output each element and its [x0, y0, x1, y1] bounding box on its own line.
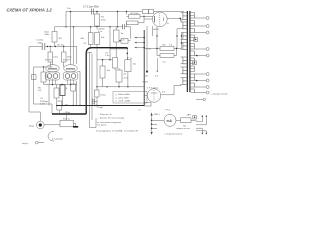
svg-text:2АП: 2АП — [187, 113, 192, 116]
tube V1 driver — [152, 12, 167, 27]
resistor R8 — [57, 101, 62, 110]
resistor 100ohm — [94, 90, 99, 97]
wires splitter — [144, 29, 181, 56]
primary stubs — [177, 13, 183, 85]
resistor mid b — [100, 66, 105, 78]
notes table — [113, 92, 147, 104]
resistor R5 — [114, 30, 120, 42]
terminal circles — [206, 17, 209, 20]
svg-text:0.5: 0.5 — [163, 61, 167, 63]
wire nested corner — [34, 67, 53, 114]
svg-text:105в: 105в — [144, 75, 150, 77]
svg-text:—выход колонок: —выход колонок — [211, 93, 228, 95]
tube V3 output — [64, 65, 78, 72]
resistor R4 — [95, 14, 100, 26]
tube V2 output — [46, 65, 60, 72]
svg-text:43к: 43к — [101, 37, 104, 39]
svg-text:Е-471: Е-471 — [143, 82, 150, 84]
resistor R6 — [54, 88, 59, 98]
svg-text:2А2.1: 2А2.1 — [154, 113, 160, 116]
long risers to output tubes — [71, 12, 77, 106]
resistor 68k parallel — [88, 33, 93, 45]
fuse resistor — [181, 118, 192, 123]
svg-text:4.7-резерв: 4.7-резерв — [52, 138, 64, 140]
svg-text:(+ 500ом 45Вт: (+ 500ом 45Вт — [116, 94, 130, 96]
svg-text:Ст: Ст — [138, 109, 141, 111]
resistor mid a — [113, 58, 118, 69]
svg-text:6,3: 6,3 — [155, 75, 159, 77]
wire B+ top rail — [66, 11, 184, 13]
wire drop x49 — [48, 85, 50, 106]
svg-text:1к: 1к — [167, 23, 169, 25]
capacitor C2 dark box — [60, 85, 65, 96]
svg-text:47к: 47к — [38, 90, 41, 92]
capacitor box C6 — [121, 39, 128, 44]
svg-text:120к: 120к — [67, 57, 72, 59]
svg-text:(+ 22ом 10Вт: (+ 22ом 10Вт — [116, 97, 129, 99]
wire riser x110 — [109, 27, 111, 60]
mains column — [151, 116, 153, 132]
resistor mid d — [125, 60, 131, 72]
meter mA — [164, 114, 176, 126]
phase splitter bus — [143, 30, 145, 106]
svg-text:10к: 10к — [133, 63, 136, 65]
ground bus thick — [52, 113, 86, 115]
svg-text:470к: 470к — [101, 20, 106, 22]
svg-text:РТ-2: РТ-2 — [166, 109, 171, 111]
svg-text:42: 42 — [84, 43, 87, 45]
node +245v — [70, 11, 72, 13]
svg-text:R11 1а: R11 1а — [63, 119, 71, 121]
B+ thick riser — [86, 48, 127, 114]
primary windings left — [183, 13, 187, 85]
svg-text:4700пф: 4700пф — [40, 100, 48, 103]
svg-text:– Работал -4г: – Работал -4г — [98, 114, 112, 116]
svg-text:1 к: 1 к — [59, 36, 63, 40]
svg-text:– Баланс DC вых каскада: – Баланс DC вых каскада — [98, 117, 125, 119]
svg-text:СХЕМА ОТ ХРЮНА 1.2: СХЕМА ОТ ХРЮНА 1.2 — [7, 7, 53, 12]
capacitor C5 screen — [123, 24, 125, 29]
svg-text:68к: 68к — [81, 38, 84, 40]
svg-text:120к: 120к — [53, 57, 58, 59]
input capacitor C1 — [42, 43, 45, 50]
svg-text:mA: mA — [167, 119, 173, 123]
cathode bus y84.5 — [44, 79, 78, 85]
resistor R7h — [160, 54, 174, 58]
cathode resistor Rk — [41, 72, 46, 82]
ground symbol — [73, 126, 78, 128]
svg-text:нет фона: нет фона — [97, 123, 107, 126]
svg-text:R6: R6 — [163, 44, 167, 46]
stair connector — [196, 116, 206, 133]
svg-text:6Н2П: 6Н2П — [153, 29, 159, 31]
svg-text:2к: 2к — [130, 58, 132, 60]
stub arrows — [137, 38, 145, 48]
svg-text:с опорной панели: с опорной панели — [164, 133, 183, 136]
svg-text:R2 2м: R2 2м — [58, 45, 65, 47]
svg-text:450в: 450в — [45, 34, 51, 36]
svg-text:6,3: 6,3 — [162, 92, 166, 94]
svg-text:(+ +62К +240В: (+ +62К +240В — [116, 101, 131, 103]
label plate V1 — [142, 10, 148, 14]
heater feed arrows — [146, 26, 148, 71]
svg-text:1П дБ: 1П дБ — [97, 107, 104, 109]
wire under thick — [110, 49, 127, 60]
capacitor C8 — [93, 99, 95, 105]
input jack — [37, 121, 45, 129]
wire V1 plate to OT — [167, 18, 182, 21]
wire riser x117.5 — [117, 12, 119, 27]
wire input rail y46.5 — [29, 46, 77, 48]
wire y86.8 — [97, 86, 144, 88]
svg-text:0.22мк: 0.22мк — [37, 40, 44, 42]
bus y105.5 — [56, 105, 144, 107]
svg-text:-47: -47 — [123, 74, 127, 76]
svg-text:1м: 1м — [121, 33, 124, 35]
node after C7 — [96, 11, 98, 13]
resistor R3 — [95, 33, 100, 45]
rectifier tube V4 — [147, 89, 161, 103]
resistor R6h — [160, 47, 174, 51]
wire left drop from B+ — [65, 12, 67, 27]
resistor on left branch — [32, 75, 37, 80]
wire rail left vertical — [29, 47, 40, 122]
cable arc — [48, 131, 54, 141]
svg-text:100м: 100м — [100, 94, 106, 96]
svg-text:вход 1: вход 1 — [22, 143, 29, 145]
aux terminal — [196, 99, 203, 101]
svg-text:Вход: Вход — [29, 126, 35, 128]
svg-text:~: ~ — [150, 111, 152, 113]
grid resistor R2b — [62, 52, 67, 62]
output transformer core — [187, 11, 190, 92]
svg-text:пф: пф — [183, 124, 186, 127]
resistor R1 — [52, 32, 57, 43]
svg-text:1.6: 1.6 — [169, 44, 173, 46]
capacitor C7 — [92, 9, 94, 15]
secondary taps to terminals — [194, 18, 206, 93]
svg-text:Д: Д — [66, 88, 68, 90]
svg-text:модел по нет: модел по нет — [177, 128, 190, 130]
volume pot — [60, 120, 74, 127]
svg-text:4.3 В: 4.3 В — [40, 103, 46, 105]
svg-text:6П14П: 6П14П — [45, 59, 52, 61]
svg-text:6П14П: 6П14П — [63, 59, 70, 61]
connector label — [193, 116, 197, 120]
svg-text:450в: 450в — [38, 42, 44, 44]
svg-text:R4: R4 — [101, 17, 105, 19]
svg-text:12в: 12в — [67, 8, 71, 10]
svg-text:-4.7к: -4.7к — [123, 77, 128, 79]
wire x97 drop — [96, 48, 98, 106]
svg-text:10к: 10к — [107, 70, 110, 72]
wire R1 leads — [54, 27, 56, 47]
wire R4 leads — [96, 12, 98, 27]
svg-text:1.2к: 1.2к — [105, 55, 109, 57]
secondary windings right — [191, 13, 195, 93]
svg-text:Ф выходной (2. 70 Ом2ВА - 70 к: Ф выходной (2. 70 Ом2ВА - 70 кОм2м ПП — [96, 130, 138, 133]
tube V1 cathode drops — [153, 26, 158, 36]
svg-text:R6: R6 — [38, 87, 42, 89]
tap small squares — [194, 38, 198, 42]
svg-text:С7 0,1мк 400в: С7 0,1мк 400в — [83, 6, 99, 9]
right bus wires down — [86, 52, 96, 127]
grid resistor R2a — [48, 52, 53, 62]
wires around anode boxes — [127, 12, 154, 27]
resistor mid c — [116, 70, 122, 82]
svg-text:С5: С5 — [105, 52, 109, 54]
svg-text:4.7в: 4.7в — [98, 31, 103, 33]
wire V3 side drop — [77, 72, 80, 106]
wire screen row y26.8 — [55, 27, 131, 39]
resistor under V3 — [71, 84, 76, 91]
